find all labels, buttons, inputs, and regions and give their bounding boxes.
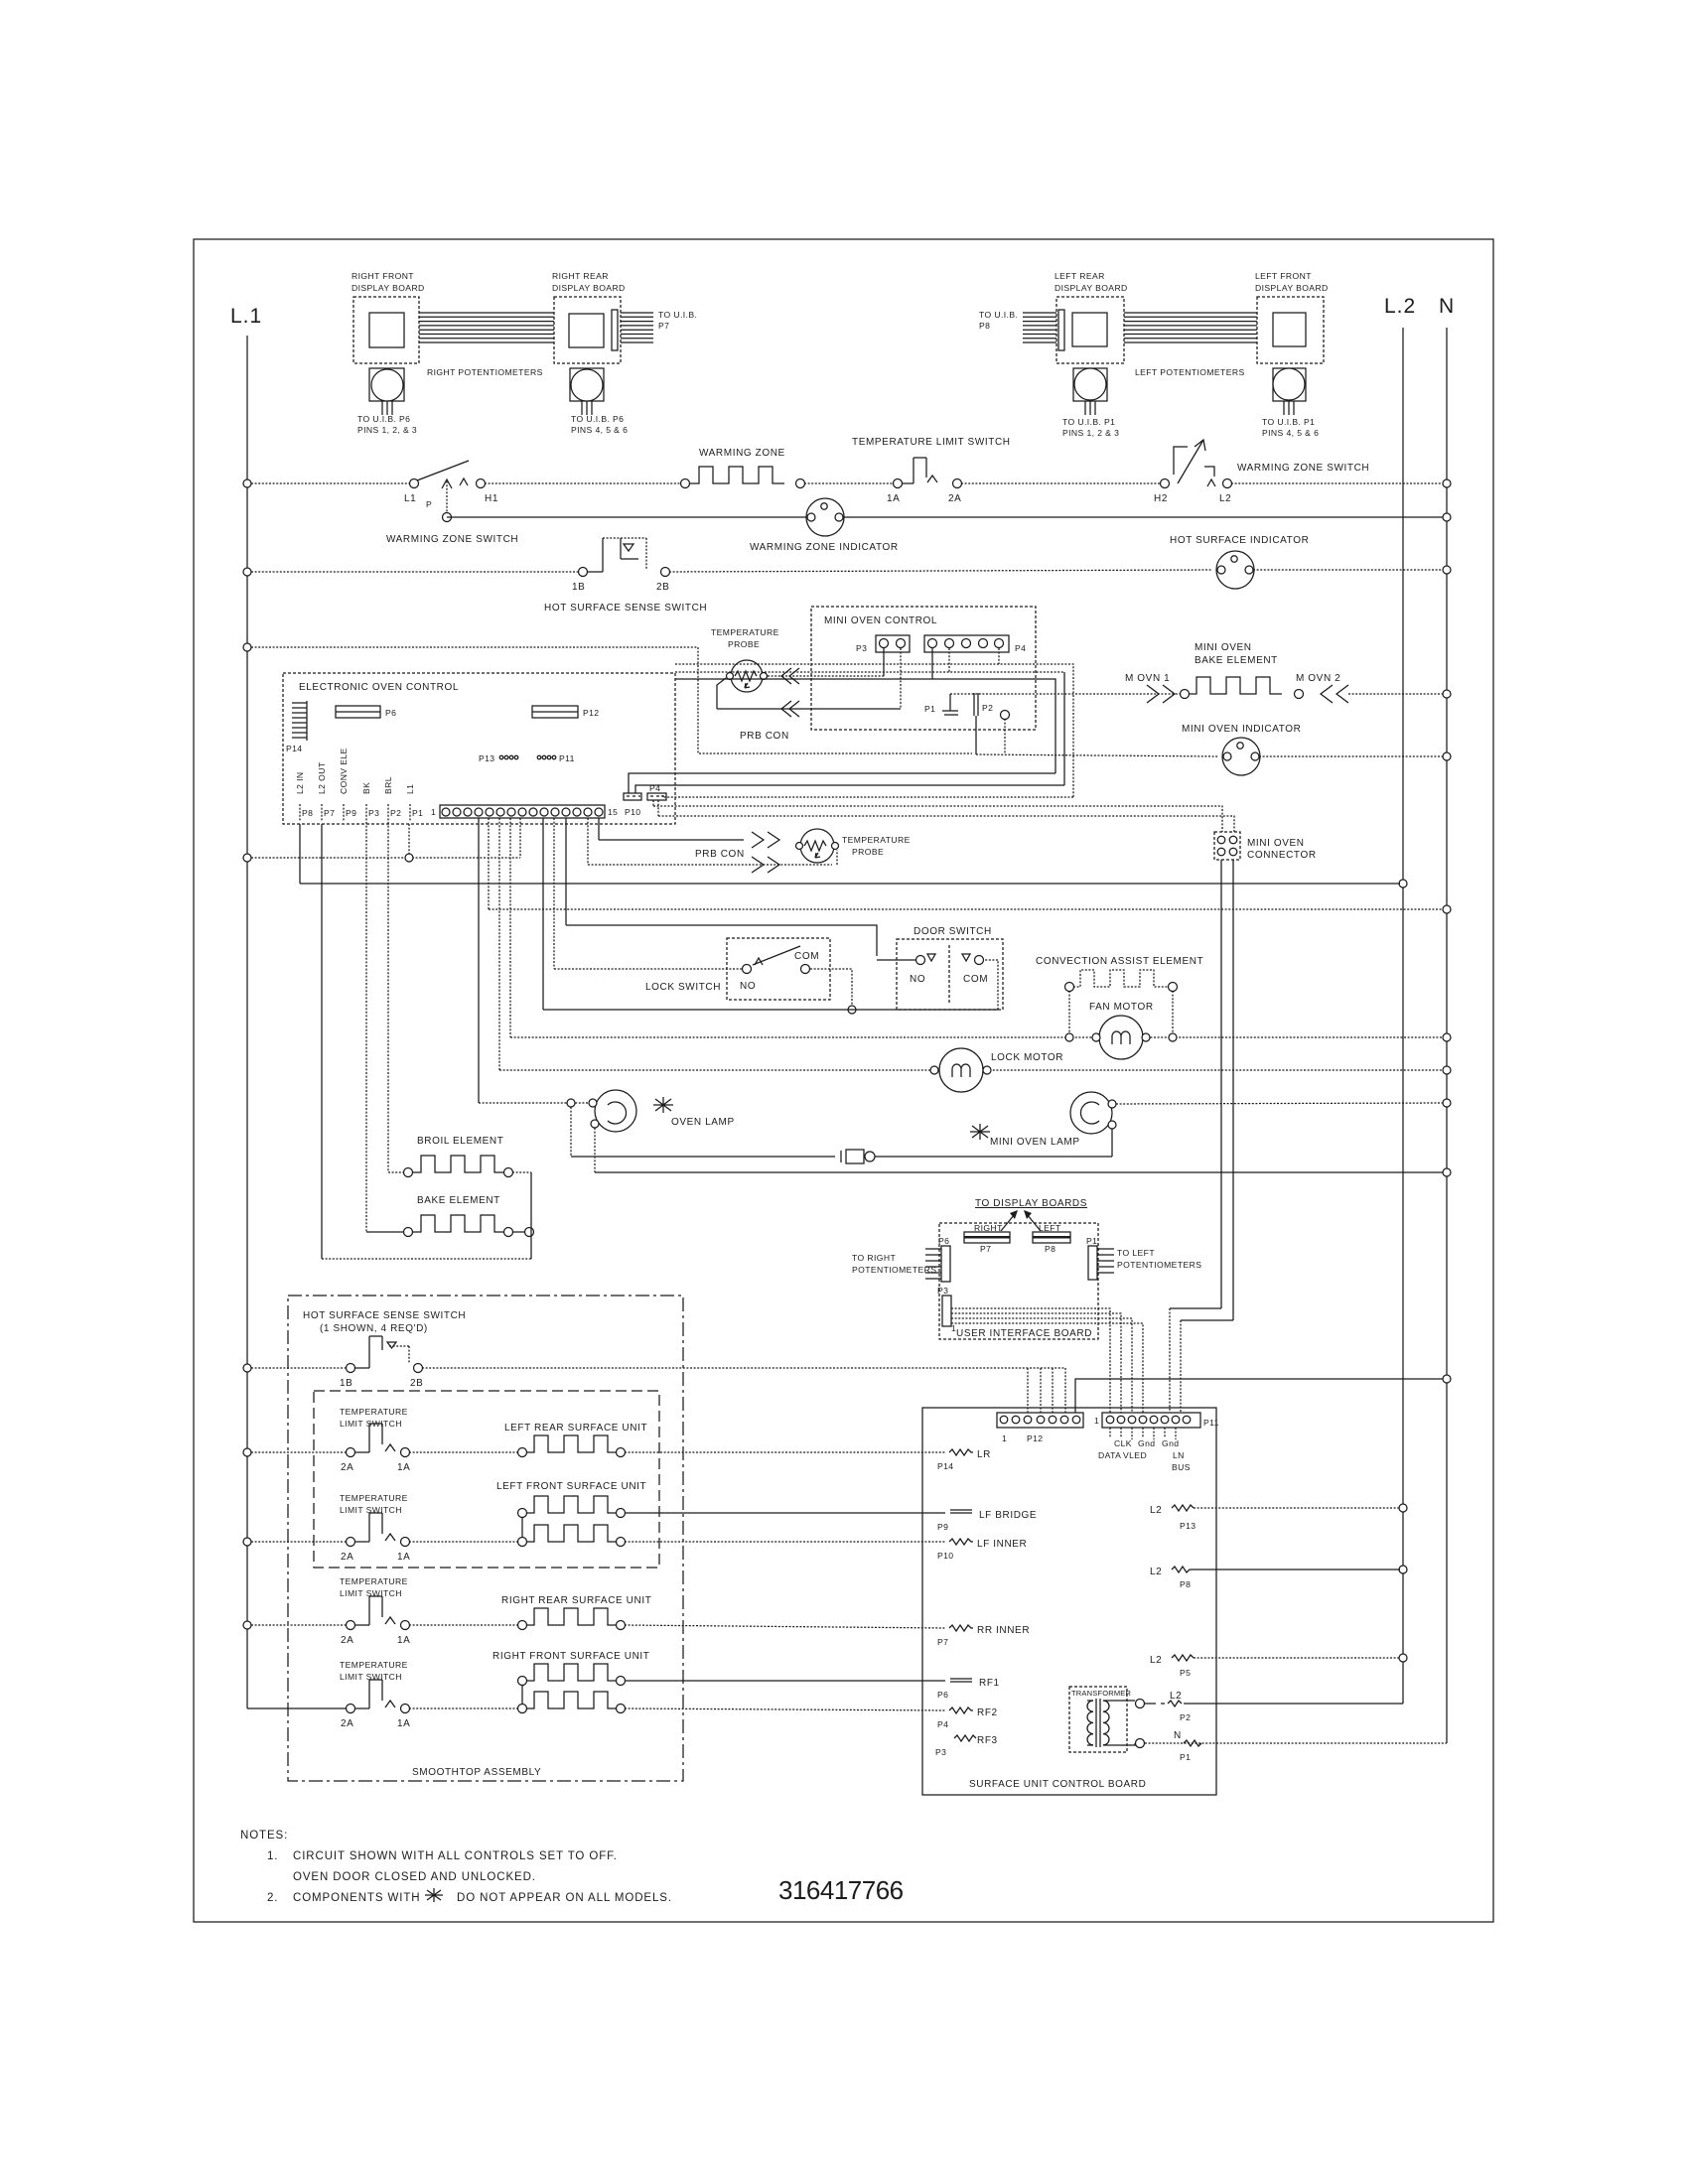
wire N to P12 pin8 <box>1075 1379 1443 1413</box>
svg-text:SURFACE UNIT CONTROL BOARD: SURFACE UNIT CONTROL BOARD <box>969 1779 1146 1790</box>
svg-text:TO RIGHT: TO RIGHT <box>852 1253 896 1263</box>
svg-text:RIGHT FRONT: RIGHT FRONT <box>352 271 414 281</box>
svg-text:DISPLAY BOARD: DISPLAY BOARD <box>552 283 626 293</box>
temperature limit switch RF <box>247 1660 410 1729</box>
potentiometer right rear <box>570 368 628 435</box>
pin LF INNER P10 <box>937 1539 1027 1561</box>
svg-text:P1: P1 <box>1086 1236 1097 1246</box>
door switch <box>877 926 1003 1010</box>
svg-text:LEFT FRONT SURFACE UNIT: LEFT FRONT SURFACE UNIT <box>496 1481 646 1492</box>
wire LR to SUCB P14 <box>625 1451 945 1453</box>
wire fan motor line <box>510 1036 1443 1038</box>
wire BRL drop <box>387 822 389 1172</box>
svg-text:TO U.I.B. P6: TO U.I.B. P6 <box>571 414 624 424</box>
pin LF BRIDGE P9 <box>937 1510 1037 1532</box>
wire indicator to N <box>1253 569 1443 571</box>
wire to warming zone element <box>485 482 681 484</box>
svg-text:2B: 2B <box>656 582 669 593</box>
svg-text:P2: P2 <box>390 808 401 818</box>
wire L2 bus <box>1402 328 1404 1704</box>
svg-text:L2: L2 <box>1150 1505 1162 1516</box>
wire element to limit switch <box>804 482 894 484</box>
svg-text:P8: P8 <box>302 808 313 818</box>
svg-text:P8: P8 <box>1180 1579 1191 1589</box>
svg-text:COM: COM <box>794 951 819 962</box>
svg-text:LOCK MOTOR: LOCK MOTOR <box>991 1052 1063 1063</box>
display board LEFT REAR <box>1055 271 1128 363</box>
svg-text:CIRCUIT SHOWN WITH ALL CONTROL: CIRCUIT SHOWN WITH ALL CONTROLS SET TO O… <box>293 1850 618 1862</box>
svg-text:P2: P2 <box>982 703 993 713</box>
svg-text:2.: 2. <box>267 1892 278 1904</box>
svg-text:CONNECTOR: CONNECTOR <box>1247 850 1317 861</box>
svg-text:TEMPERATURE: TEMPERATURE <box>842 835 911 845</box>
svg-text:Gnd: Gnd <box>1138 1438 1155 1448</box>
svg-text:POTENTIOMETERS: POTENTIOMETERS <box>1117 1260 1201 1270</box>
svg-text:USER INTERFACE BOARD: USER INTERFACE BOARD <box>956 1328 1092 1339</box>
svg-text:L1: L1 <box>405 784 415 794</box>
pin P1 mini oven <box>924 694 958 715</box>
convection assist element <box>1036 956 1203 1033</box>
svg-text:ELECTRONIC OVEN CONTROL: ELECTRONIC OVEN CONTROL <box>299 682 459 693</box>
connector P1 UIB <box>1086 1236 1201 1280</box>
svg-text:LN: LN <box>1173 1450 1185 1460</box>
svg-text:2A: 2A <box>341 1635 353 1646</box>
wire mini P4 pin2 wrap to EOC P10 <box>635 648 1064 793</box>
EOC left pins <box>300 804 423 822</box>
pin L2 P8 <box>1150 1567 1400 1589</box>
pin RF1 P6 <box>937 1678 1000 1700</box>
warming zone element <box>681 448 805 488</box>
svg-text:DOOR SWITCH: DOOR SWITCH <box>914 926 992 937</box>
svg-text:PROBE: PROBE <box>728 639 760 649</box>
connector P4 EOC <box>647 783 666 800</box>
wire pin drops from 15 pin strip <box>479 818 566 1103</box>
svg-text:P13: P13 <box>479 753 495 763</box>
svg-text:P1: P1 <box>924 704 935 714</box>
svg-text:RIGHT REAR SURFACE UNIT: RIGHT REAR SURFACE UNIT <box>501 1595 651 1606</box>
svg-text:P3: P3 <box>368 808 379 818</box>
svg-text:H2: H2 <box>1154 493 1168 504</box>
svg-text:L2: L2 <box>1150 1567 1162 1577</box>
svg-text:WARMING ZONE SWITCH: WARMING ZONE SWITCH <box>1237 463 1369 474</box>
pin N P1 <box>1145 1730 1447 1762</box>
wire EOC P4 to mini oven connector pin2 <box>658 800 1234 832</box>
svg-text:L2: L2 <box>1170 1691 1182 1702</box>
svg-text:1: 1 <box>951 1323 956 1333</box>
svg-text:RF3: RF3 <box>977 1735 998 1746</box>
wire warming zone indicator line <box>447 516 807 518</box>
temperature limit switch top <box>852 437 1011 504</box>
wire EOC P4 to mini oven connector pin1 <box>653 800 1222 832</box>
mini oven connector <box>1214 832 1317 861</box>
wire mini oven connector to UIB P11 pin7 <box>1181 860 1233 1413</box>
svg-text:WARMING ZONE SWITCH: WARMING ZONE SWITCH <box>386 534 518 545</box>
pin RF3 P3 <box>935 1735 998 1757</box>
svg-text:TO U.I.B. P1: TO U.I.B. P1 <box>1062 417 1115 427</box>
svg-text:LEFT REAR: LEFT REAR <box>1055 271 1105 281</box>
svg-text:P3: P3 <box>937 1286 948 1296</box>
wire mini oven connector to UIB P11 pin6 <box>1170 860 1221 1413</box>
svg-text:P4: P4 <box>937 1719 948 1729</box>
svg-text:LF BRIDGE: LF BRIDGE <box>979 1510 1037 1521</box>
svg-text:P10: P10 <box>937 1551 954 1561</box>
wire oven lamp lower to N <box>595 1128 1443 1172</box>
right rear surface unit <box>409 1595 651 1630</box>
svg-text:CONVECTION ASSIST ELEMENT: CONVECTION ASSIST ELEMENT <box>1036 956 1203 967</box>
svg-text:L.2: L.2 <box>1384 295 1416 318</box>
connector P3 mini oven <box>856 635 910 653</box>
wire BK drop <box>365 822 367 1232</box>
connector 15 pin strip <box>431 805 618 818</box>
wire probe2 return <box>588 818 837 873</box>
mini oven lamp <box>970 1092 1116 1148</box>
right front surface unit upper <box>492 1651 649 1705</box>
warming zone switch right <box>1154 440 1369 504</box>
wire N line from pin 5 <box>489 818 1443 909</box>
node circle near P2 <box>1001 711 1010 755</box>
svg-text:POTENTIOMETERS: POTENTIOMETERS <box>852 1265 936 1275</box>
svg-text:P12: P12 <box>1027 1433 1044 1443</box>
svg-text:LOCK SWITCH: LOCK SWITCH <box>645 982 721 993</box>
wire P3 to P11 pin1 <box>951 1308 1110 1413</box>
svg-text:COM: COM <box>963 974 988 985</box>
wire warming zone line L1 segment <box>251 482 410 484</box>
label to display boards <box>975 1198 1087 1231</box>
svg-text:2A: 2A <box>341 1552 353 1563</box>
left front surface unit lower <box>409 1525 626 1547</box>
temperature limit switch RR <box>251 1576 410 1646</box>
connector P10 EOC <box>624 793 641 817</box>
temperature probe upper <box>711 627 779 692</box>
svg-text:P14: P14 <box>286 744 303 753</box>
mini oven indicator <box>1182 724 1301 775</box>
svg-text:BUS: BUS <box>1172 1462 1191 1472</box>
svg-text:TEMPERATURE: TEMPERATURE <box>340 1493 408 1503</box>
bake element <box>366 1195 534 1237</box>
svg-text:DO NOT APPEAR ON ALL MODELS.: DO NOT APPEAR ON ALL MODELS. <box>457 1892 672 1904</box>
wire indicator to N <box>1259 755 1443 757</box>
connector P13 P11 dots <box>479 753 575 763</box>
svg-text:PINS 4, 5 & 6: PINS 4, 5 & 6 <box>1262 428 1319 438</box>
svg-text:TO U.I.B.: TO U.I.B. <box>658 310 697 320</box>
wire L1 bus <box>246 336 248 1708</box>
svg-text:H1: H1 <box>485 493 498 504</box>
svg-text:N: N <box>1174 1730 1182 1741</box>
svg-text:P3: P3 <box>935 1747 946 1757</box>
svg-text:MINI OVEN: MINI OVEN <box>1195 642 1252 653</box>
wire LF BRIDGE to SUCB P9 <box>625 1512 945 1514</box>
pin P2 mini oven <box>974 693 993 754</box>
svg-text:N: N <box>1439 295 1455 318</box>
svg-text:P1: P1 <box>412 808 423 818</box>
arrow M OVN 1 <box>1125 673 1175 703</box>
lock motor <box>930 1048 1063 1092</box>
svg-text:NOTES:: NOTES: <box>240 1830 288 1842</box>
svg-text:TEMPERATURE: TEMPERATURE <box>340 1576 408 1586</box>
svg-text:PINS 1, 2, & 3: PINS 1, 2, & 3 <box>357 425 417 435</box>
svg-text:BK: BK <box>361 782 371 794</box>
connector P11 SUCB <box>1094 1413 1219 1472</box>
svg-text:1: 1 <box>1094 1416 1099 1426</box>
wire RF1 to SUCB P6 <box>625 1680 945 1682</box>
svg-text:1A: 1A <box>397 1552 410 1563</box>
svg-text:OVEN DOOR CLOSED AND UNLOCKED.: OVEN DOOR CLOSED AND UNLOCKED. <box>293 1871 536 1883</box>
potentiometer left front <box>1262 368 1319 438</box>
wire hot surface line to P12 <box>422 1368 1065 1413</box>
EOC left pin labels <box>295 748 415 794</box>
svg-text:DATA: DATA <box>1098 1450 1121 1460</box>
svg-text:P5: P5 <box>1180 1668 1191 1678</box>
mini oven bake element <box>1181 642 1304 699</box>
svg-text:BAKE ELEMENT: BAKE ELEMENT <box>417 1195 500 1206</box>
svg-text:P11: P11 <box>1203 1418 1219 1428</box>
wire indicator to N <box>843 516 1443 518</box>
wire mini P4 pin1 wrap to EOC P10 <box>629 648 1055 793</box>
node N junctions <box>1443 479 1451 1383</box>
temperature probe lower <box>796 829 911 863</box>
svg-text:PRB CON: PRB CON <box>695 849 745 860</box>
svg-text:P14: P14 <box>937 1461 954 1471</box>
svg-text:OVEN LAMP: OVEN LAMP <box>671 1117 735 1128</box>
svg-text:RIGHT POTENTIOMETERS: RIGHT POTENTIOMETERS <box>427 367 543 377</box>
svg-text:2A: 2A <box>948 493 961 504</box>
pin LR P14 <box>937 1449 991 1471</box>
svg-text:LF INNER: LF INNER <box>977 1539 1027 1550</box>
svg-text:CONV ELE: CONV ELE <box>339 748 349 794</box>
wire lock switch feed <box>554 968 742 970</box>
svg-text:PINS 1, 2 & 3: PINS 1, 2 & 3 <box>1062 428 1119 438</box>
svg-text:P4: P4 <box>1015 643 1026 653</box>
warming zone indicator <box>750 498 899 553</box>
connector P7 UIB <box>964 1223 1010 1254</box>
wire to hot surface indicator <box>669 570 1212 572</box>
svg-text:DISPLAY BOARD: DISPLAY BOARD <box>352 283 425 293</box>
svg-text:1A: 1A <box>397 1462 410 1473</box>
wire EOC pin15 to probe2 <box>599 818 744 840</box>
svg-text:P6: P6 <box>385 708 396 718</box>
svg-text:P9: P9 <box>346 808 356 818</box>
svg-text:P3: P3 <box>856 643 867 653</box>
left front surface unit upper <box>496 1481 646 1538</box>
svg-text:1A: 1A <box>887 493 900 504</box>
svg-text:1A: 1A <box>397 1718 410 1729</box>
svg-text:NO: NO <box>910 974 925 985</box>
svg-text:P9: P9 <box>937 1522 948 1532</box>
wire L1 line to EOC <box>251 818 520 862</box>
svg-text:TO U.I.B. P6: TO U.I.B. P6 <box>357 414 410 424</box>
svg-text:SMOOTHTOP ASSEMBLY: SMOOTHTOP ASSEMBLY <box>412 1767 541 1778</box>
wire lock COM to junction <box>810 969 856 1014</box>
wire P3 to P11 pin4 <box>951 1323 1143 1413</box>
svg-text:2B: 2B <box>410 1378 423 1389</box>
svg-text:L2 OUT: L2 OUT <box>317 761 327 794</box>
surface unit control board <box>922 1408 1216 1795</box>
wire oven lamp line <box>479 1099 588 1107</box>
svg-text:RIGHT FRONT SURFACE UNIT: RIGHT FRONT SURFACE UNIT <box>492 1651 649 1662</box>
pin L2 P5 <box>1150 1655 1400 1678</box>
hot surface indicator <box>1170 535 1309 589</box>
svg-text:LEFT POTENTIOMETERS: LEFT POTENTIOMETERS <box>1135 367 1245 377</box>
svg-text:L2 IN: L2 IN <box>295 771 305 794</box>
wire probe leg to P3 pin2 with arrows <box>717 648 901 742</box>
pin L2 P13 <box>1150 1505 1400 1531</box>
svg-text:P11: P11 <box>559 753 575 763</box>
lock switch <box>645 938 830 1000</box>
potentiometer right front <box>357 368 417 435</box>
electronic oven control board <box>283 673 675 824</box>
svg-text:MINI OVEN CONTROL: MINI OVEN CONTROL <box>824 615 937 626</box>
svg-text:1B: 1B <box>572 582 585 593</box>
svg-text:2A: 2A <box>341 1718 353 1729</box>
pin L2 P2 <box>1145 1691 1403 1722</box>
wire RF2 to SUCB P4 <box>625 1708 945 1710</box>
wire mini P4 pin5 wrap to EOC P4 <box>662 648 1073 797</box>
wire element to N <box>1348 693 1443 695</box>
connector P6 UIB <box>852 1236 950 1282</box>
connector P4 mini oven <box>924 635 1026 653</box>
svg-text:P8: P8 <box>1045 1244 1055 1254</box>
svg-text:P7: P7 <box>937 1637 948 1647</box>
svg-text:M OVN 1: M OVN 1 <box>1125 673 1170 684</box>
mini oven control board <box>811 607 1036 730</box>
wire L1 feed to mini oven control <box>251 647 972 753</box>
ribbon cable right pair <box>419 313 554 342</box>
svg-text:P1: P1 <box>1180 1752 1191 1762</box>
svg-text:316417766: 316417766 <box>778 1875 904 1905</box>
wire P3 to P11 pin2 <box>951 1313 1121 1413</box>
svg-text:LR: LR <box>977 1449 991 1460</box>
warming zone switch left <box>386 461 518 545</box>
connector P6 EOC <box>336 706 396 718</box>
svg-text:LEFT FRONT: LEFT FRONT <box>1255 271 1312 281</box>
svg-text:TRANSFORMER: TRANSFORMER <box>1071 1689 1132 1698</box>
svg-text:NO: NO <box>740 981 756 992</box>
svg-text:RF2: RF2 <box>977 1707 998 1718</box>
wire to N <box>1231 482 1443 484</box>
svg-text:1A: 1A <box>397 1635 410 1646</box>
ribbon cable left pair <box>1124 313 1257 342</box>
svg-text:P10: P10 <box>625 807 641 817</box>
svg-text:P8: P8 <box>979 321 990 331</box>
inner surface units box <box>314 1391 659 1568</box>
svg-text:L1: L1 <box>404 493 416 504</box>
svg-text:MINI OVEN: MINI OVEN <box>1247 838 1305 849</box>
svg-text:2A: 2A <box>341 1462 353 1473</box>
svg-text:TEMPERATURE: TEMPERATURE <box>711 627 779 637</box>
display board RIGHT FRONT <box>352 271 425 363</box>
svg-text:1.: 1. <box>267 1850 278 1862</box>
border frame <box>194 239 1493 1922</box>
svg-text:HOT SURFACE INDICATOR: HOT SURFACE INDICATOR <box>1170 535 1309 546</box>
wire RR INNER to SUCB P7 <box>625 1625 945 1628</box>
hot surface sense switch <box>544 538 707 614</box>
svg-text:P7: P7 <box>324 808 335 818</box>
svg-text:WARMING ZONE INDICATOR: WARMING ZONE INDICATOR <box>750 542 899 553</box>
svg-text:BROIL ELEMENT: BROIL ELEMENT <box>417 1136 503 1147</box>
wire probe to P3 pin1 with arrows <box>768 648 884 684</box>
potentiometer left rear <box>1062 368 1119 438</box>
wire lock door COM line <box>543 960 998 1010</box>
svg-text:PINS 4, 5 & 6: PINS 4, 5 & 6 <box>571 425 628 435</box>
svg-text:RF1: RF1 <box>979 1678 1000 1689</box>
svg-text:DISPLAY BOARD: DISPLAY BOARD <box>1255 283 1329 293</box>
svg-text:P2: P2 <box>1180 1712 1191 1722</box>
svg-text:LEFT REAR SURFACE UNIT: LEFT REAR SURFACE UNIT <box>504 1423 647 1433</box>
arrow M OVN 2 <box>1296 673 1348 703</box>
svg-text:WARMING ZONE: WARMING ZONE <box>699 448 785 459</box>
svg-text:1: 1 <box>1002 1433 1007 1443</box>
svg-text:TO LEFT: TO LEFT <box>1117 1248 1155 1258</box>
svg-text:TEMPERATURE LIMIT SWITCH: TEMPERATURE LIMIT SWITCH <box>852 437 1011 448</box>
wire limit switch to warming zone switch right <box>961 482 1161 484</box>
wire LF INNER to SUCB P10 <box>625 1541 945 1543</box>
svg-text:Gnd: Gnd <box>1162 1438 1179 1448</box>
svg-text:L.1: L.1 <box>230 305 262 328</box>
wire lamp feed with inline plug <box>571 1107 1112 1163</box>
svg-text:P12: P12 <box>583 708 600 718</box>
wire hot surface sense line <box>251 571 579 573</box>
broil element <box>388 1136 531 1177</box>
oven lamp <box>589 1090 735 1132</box>
left rear surface unit <box>409 1423 647 1457</box>
wire L2 OUT loop <box>322 824 531 1259</box>
notes <box>240 1830 672 1904</box>
temperature limit switch LF <box>251 1493 410 1563</box>
pin RF2 P4 <box>937 1707 998 1729</box>
svg-text:P: P <box>426 499 432 509</box>
svg-text:P4: P4 <box>649 783 660 793</box>
svg-text:(1 SHOWN, 4 REQ'D): (1 SHOWN, 4 REQ'D) <box>320 1323 428 1334</box>
svg-text:HOT SURFACE SENSE SWITCH: HOT SURFACE SENSE SWITCH <box>303 1310 466 1321</box>
ribbon cable to U.I.B. P8 <box>979 310 1056 342</box>
svg-text:P6: P6 <box>938 1236 949 1246</box>
wire N bus <box>1446 328 1448 1743</box>
arrow PRB CON upper <box>752 832 779 848</box>
svg-text:TO U.I.B.: TO U.I.B. <box>979 310 1018 320</box>
connector P3 UIB <box>937 1286 956 1333</box>
svg-text:M OVN 2: M OVN 2 <box>1296 673 1340 684</box>
wire lock motor line <box>499 1069 1443 1071</box>
svg-text:TO U.I.B. P1: TO U.I.B. P1 <box>1262 417 1315 427</box>
connector P12 EOC <box>532 706 600 718</box>
svg-text:CLK: CLK <box>1114 1438 1132 1448</box>
svg-text:1B: 1B <box>340 1378 352 1389</box>
wire mini oven lamp to N <box>1116 1103 1443 1104</box>
svg-text:TO DISPLAY BOARDS: TO DISPLAY BOARDS <box>975 1198 1087 1209</box>
hot surface sense switch smoothtop <box>251 1310 466 1389</box>
svg-text:P6: P6 <box>937 1690 948 1700</box>
svg-text:L2: L2 <box>1150 1655 1162 1666</box>
smoothtop assembly box <box>288 1296 683 1781</box>
display board RIGHT REAR <box>552 271 626 363</box>
svg-text:BRL: BRL <box>383 776 393 794</box>
wire door switch feed <box>566 925 877 956</box>
svg-text:RIGHT REAR: RIGHT REAR <box>552 271 609 281</box>
user interface board <box>939 1223 1098 1339</box>
svg-text:FAN MOTOR: FAN MOTOR <box>1089 1002 1154 1013</box>
svg-text:VLED: VLED <box>1123 1450 1147 1460</box>
svg-text:P13: P13 <box>1180 1521 1196 1531</box>
temperature limit switch LR <box>251 1407 410 1473</box>
connector P14 <box>286 701 307 753</box>
svg-text:DISPLAY BOARD: DISPLAY BOARD <box>1055 283 1128 293</box>
right front surface unit lower <box>409 1692 626 1713</box>
svg-text:HOT SURFACE SENSE SWITCH: HOT SURFACE SENSE SWITCH <box>544 603 707 614</box>
svg-text:MINI OVEN INDICATOR: MINI OVEN INDICATOR <box>1182 724 1301 735</box>
ribbon cable to U.I.B. P7 <box>621 310 697 342</box>
connector P8 UIB <box>1033 1223 1070 1254</box>
pin RR INNER P7 <box>937 1625 1030 1647</box>
